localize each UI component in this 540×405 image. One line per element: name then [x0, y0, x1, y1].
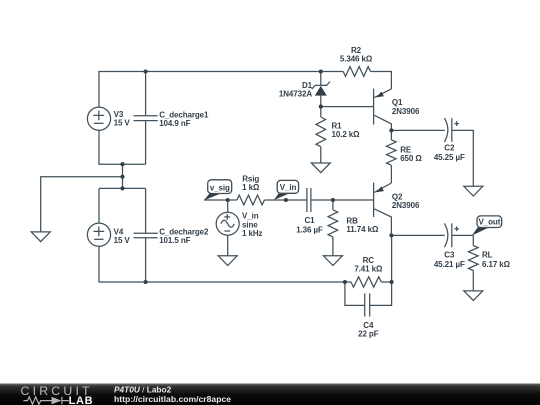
svg-text:101.5 nF: 101.5 nF	[159, 236, 190, 245]
svg-text:1 kΩ: 1 kΩ	[242, 183, 260, 192]
svg-text:22 pF: 22 pF	[358, 330, 379, 339]
svg-text:15 V: 15 V	[114, 236, 131, 245]
svg-text:C2: C2	[444, 143, 455, 152]
svg-text:45.21 µF: 45.21 µF	[434, 260, 465, 269]
svg-text:v_sig: v_sig	[210, 183, 230, 192]
svg-text:15 V: 15 V	[114, 119, 131, 128]
svg-text:11.74 kΩ: 11.74 kΩ	[346, 225, 379, 234]
svg-text:2N3906: 2N3906	[392, 201, 420, 210]
svg-text:RL: RL	[482, 251, 493, 260]
svg-text:650 Ω: 650 Ω	[400, 154, 422, 163]
svg-text:1 kHz: 1 kHz	[242, 229, 262, 238]
svg-text:2N3906: 2N3906	[392, 107, 420, 116]
svg-text:LAB: LAB	[69, 395, 94, 405]
svg-text:C1: C1	[304, 216, 315, 225]
svg-text:C3: C3	[444, 251, 455, 260]
svg-text:45.25 µF: 45.25 µF	[434, 153, 465, 162]
svg-text:7.41 kΩ: 7.41 kΩ	[354, 265, 383, 274]
svg-text:6.17 kΩ: 6.17 kΩ	[482, 260, 511, 269]
svg-text:104.9 nF: 104.9 nF	[159, 119, 190, 128]
svg-text:V_in: V_in	[280, 183, 297, 192]
svg-text:1N4732A: 1N4732A	[279, 90, 312, 99]
svg-text:V_out: V_out	[479, 218, 501, 227]
svg-text:5.346 kΩ: 5.346 kΩ	[340, 55, 373, 64]
svg-text:1.36 µF: 1.36 µF	[296, 226, 323, 235]
svg-text:http://circuitlab.com/cr8apce: http://circuitlab.com/cr8apce	[114, 394, 231, 404]
svg-text:10.2 kΩ: 10.2 kΩ	[332, 130, 361, 139]
